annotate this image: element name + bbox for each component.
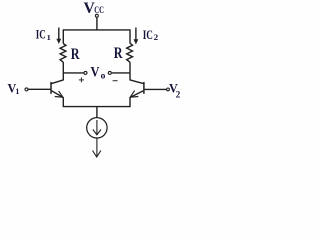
- svg-text:IC: IC: [36, 27, 46, 41]
- svg-text:o: o: [101, 72, 106, 82]
- svg-text:1: 1: [15, 87, 19, 96]
- svg-text:IC: IC: [143, 28, 153, 42]
- svg-text:R: R: [71, 46, 80, 63]
- svg-text:1: 1: [47, 33, 52, 42]
- svg-text:R: R: [114, 45, 123, 62]
- svg-text:CC: CC: [94, 5, 104, 15]
- svg-text:2: 2: [176, 90, 181, 100]
- svg-text:V: V: [91, 64, 100, 80]
- svg-text:2: 2: [154, 33, 159, 42]
